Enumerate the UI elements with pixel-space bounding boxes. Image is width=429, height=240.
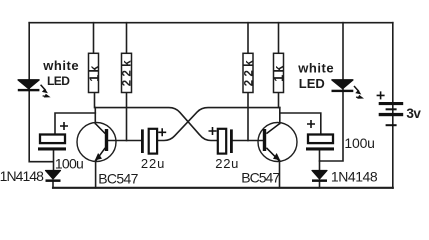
wire C1 bottom lead xyxy=(53,151,55,171)
svg-text:BC547: BC547 xyxy=(241,170,280,186)
svg-text:22u: 22u xyxy=(141,156,165,171)
wire C4 bottom lead xyxy=(319,151,321,171)
svg-text:100u: 100u xyxy=(55,155,83,171)
wire D2 cathode lead xyxy=(319,182,321,188)
svg-text:white: white xyxy=(297,61,334,76)
svg-text:1N4148: 1N4148 xyxy=(0,168,44,184)
svg-text:100u: 100u xyxy=(344,135,374,151)
wire Q2 emitter to bottom rail xyxy=(279,161,281,188)
wire D1 cathode lead xyxy=(52,182,54,188)
svg-text:LED: LED xyxy=(299,76,325,91)
diode D2 1N4148 xyxy=(312,171,327,182)
wire cross A: Q1 collector to C3 right plate xyxy=(95,108,217,141)
LED D-LED2 (white LED right) xyxy=(332,80,365,99)
wire Q1 collector junction to 100u C1 top xyxy=(55,113,95,135)
wire Q2 collector junction to 100u C4 top xyxy=(280,113,321,135)
svg-text:white: white xyxy=(42,58,79,73)
wire 22k R3 bottom lead xyxy=(247,92,249,141)
capacitor C1 100u (left electrolytic) xyxy=(38,122,68,151)
wire 22k R2 top lead xyxy=(126,23,128,55)
wire bottom rail xyxy=(53,187,393,189)
wire Q1 collector line from R1 xyxy=(94,92,97,124)
resistor R1 1k xyxy=(87,53,101,92)
wire left vertical (LED1 branch) xyxy=(29,23,53,162)
wire 22k R3 top lead xyxy=(247,23,249,55)
capacitor C4 100u (right electrolytic) xyxy=(306,120,334,151)
wire Q2 base wire from C3 xyxy=(233,140,263,142)
wire 1k R4 top lead xyxy=(278,23,280,55)
svg-text:22u: 22u xyxy=(215,156,239,171)
svg-text:BC547: BC547 xyxy=(98,170,138,186)
wire 22k R2 bottom lead xyxy=(126,92,128,141)
resistor R2 22k xyxy=(121,53,133,92)
svg-text:1k: 1k xyxy=(272,63,286,81)
svg-text:LED: LED xyxy=(47,74,70,88)
svg-text:1k: 1k xyxy=(87,63,101,81)
svg-text:22k: 22k xyxy=(243,57,255,86)
wire top rail xyxy=(29,22,393,24)
wire Q1 emitter to bottom rail xyxy=(95,161,97,188)
wire Q2 collector line from R4 xyxy=(279,92,280,124)
svg-text:3v: 3v xyxy=(406,106,421,121)
capacitor C2 22u (left coupling) xyxy=(141,128,166,153)
transistor Q1 BC547 xyxy=(77,123,116,162)
resistor R4 1k xyxy=(272,53,286,92)
transistor Q2 BC547 xyxy=(258,123,297,162)
wire cross B: C2 right plate to Q2 collector xyxy=(157,108,279,141)
diode D1 1N4148 xyxy=(46,171,61,182)
LED D-LED1 (white LED left) xyxy=(18,80,51,98)
svg-text:1N4148: 1N4148 xyxy=(331,169,378,185)
wire battery vertical xyxy=(392,23,394,188)
wire Q1 base wire to C2 xyxy=(108,140,141,142)
battery BT1 3v xyxy=(377,91,404,126)
wire 1k R1 top lead xyxy=(93,23,95,55)
resistor R3 22k xyxy=(243,53,255,92)
wire LED2 branch vertical xyxy=(320,23,344,161)
capacitor C3 22u (right coupling) xyxy=(209,127,233,154)
svg-text:22k: 22k xyxy=(121,57,133,86)
